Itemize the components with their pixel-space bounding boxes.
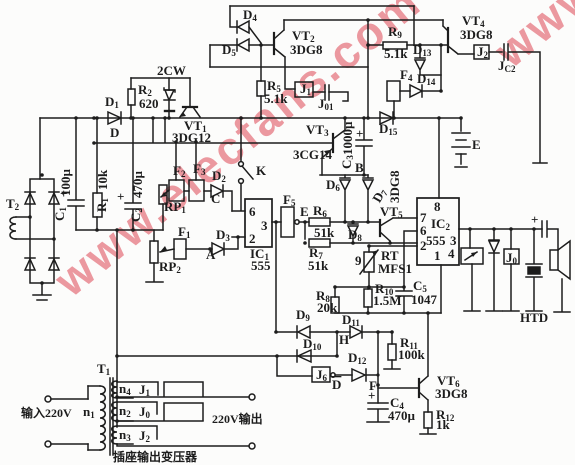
svg-text:2: 2	[420, 238, 427, 253]
svg-text:3CG14: 3CG14	[293, 147, 333, 162]
svg-text:3DG8: 3DG8	[387, 170, 402, 203]
svg-text:J1: J1	[300, 81, 312, 97]
svg-text:F3: F3	[193, 161, 206, 177]
svg-text:D11: D11	[342, 312, 360, 328]
svg-text:R1: R1	[94, 198, 110, 212]
svg-text:JC2: JC2	[498, 58, 516, 74]
svg-text:D6: D6	[326, 177, 340, 193]
svg-text:D1: D1	[105, 94, 119, 110]
svg-text:n3: n3	[119, 427, 131, 443]
svg-text:R9: R9	[388, 24, 402, 40]
svg-text:J2: J2	[139, 428, 151, 444]
svg-text:T1: T1	[97, 361, 111, 377]
svg-text:K: K	[256, 163, 267, 178]
svg-text:220V输出: 220V输出	[212, 411, 263, 426]
svg-text:MFS1: MFS1	[378, 261, 412, 276]
svg-text:100k: 100k	[398, 347, 426, 362]
svg-text:输入220V: 输入220V	[21, 405, 72, 420]
svg-text:J01: J01	[318, 96, 334, 112]
svg-text:+: +	[117, 189, 124, 204]
svg-text:D12: D12	[348, 350, 367, 366]
svg-text:D3: D3	[216, 227, 230, 243]
svg-text:D2: D2	[212, 168, 226, 184]
svg-text:n4: n4	[119, 381, 131, 397]
svg-text:J1: J1	[139, 382, 151, 398]
svg-text:D14: D14	[417, 71, 436, 87]
svg-text:1: 1	[434, 248, 441, 263]
svg-text:10k: 10k	[95, 169, 110, 190]
svg-text:VT5: VT5	[380, 204, 403, 220]
svg-text:E: E	[300, 204, 309, 219]
svg-text:T2: T2	[6, 196, 20, 212]
svg-text:+: +	[368, 388, 375, 403]
svg-text:D4: D4	[243, 7, 257, 23]
svg-text:470µ: 470µ	[130, 171, 145, 199]
svg-text:A: A	[206, 247, 216, 262]
svg-text:8: 8	[434, 199, 441, 214]
svg-text:3DG12: 3DG12	[172, 130, 211, 145]
svg-text:20k: 20k	[317, 300, 338, 315]
svg-text:51k: 51k	[314, 225, 335, 240]
svg-text:2: 2	[249, 231, 256, 246]
svg-text:+: +	[60, 186, 67, 201]
svg-text:1.5M: 1.5M	[373, 293, 402, 308]
svg-text:F1: F1	[178, 224, 191, 240]
svg-text:D8: D8	[348, 227, 362, 243]
svg-text:R6: R6	[313, 203, 327, 219]
svg-text:插座输出变压器: 插座输出变压器	[113, 449, 198, 464]
svg-text:9: 9	[355, 253, 362, 268]
svg-text:1k: 1k	[436, 417, 451, 432]
svg-text:C: C	[211, 191, 220, 206]
svg-text:C3: C3	[339, 155, 355, 169]
svg-text:+: +	[531, 212, 538, 227]
svg-text:C2: C2	[128, 208, 144, 222]
svg-text:RP2: RP2	[159, 259, 181, 275]
svg-text:HTD: HTD	[520, 310, 548, 325]
svg-text:2CW: 2CW	[157, 63, 186, 78]
svg-text:1047: 1047	[411, 292, 438, 307]
svg-text:B: B	[355, 160, 364, 175]
svg-text:D: D	[332, 377, 341, 392]
svg-text:IC2: IC2	[431, 216, 450, 232]
svg-text:620: 620	[139, 96, 159, 111]
svg-text:J0: J0	[139, 404, 151, 420]
svg-text:F2: F2	[173, 163, 186, 179]
svg-text:VT3: VT3	[306, 122, 329, 138]
svg-text:4: 4	[448, 246, 455, 261]
svg-text:+: +	[356, 126, 363, 141]
svg-text:555: 555	[251, 258, 271, 273]
svg-text:3DG8: 3DG8	[460, 27, 493, 42]
svg-text:1000µ: 1000µ	[340, 121, 355, 155]
svg-text:H: H	[339, 332, 349, 347]
svg-text:J0: J0	[506, 250, 518, 266]
svg-text:F5: F5	[283, 192, 296, 208]
svg-text:E: E	[472, 137, 481, 152]
svg-text:J6: J6	[316, 367, 328, 383]
svg-text:3DG8: 3DG8	[290, 42, 323, 57]
svg-text:J2: J2	[477, 44, 489, 60]
svg-text:D9: D9	[296, 307, 310, 323]
svg-text:470µ: 470µ	[388, 408, 416, 423]
svg-text:51k: 51k	[308, 258, 329, 273]
svg-text:6: 6	[249, 204, 256, 219]
svg-text:F4: F4	[400, 67, 413, 83]
svg-text:n2: n2	[119, 403, 131, 419]
svg-text:n1: n1	[83, 404, 95, 420]
svg-text:5.1k: 5.1k	[384, 46, 408, 61]
svg-text:D15: D15	[379, 121, 398, 137]
svg-text:D10: D10	[303, 336, 322, 352]
svg-text:3: 3	[261, 218, 268, 233]
svg-text:5.1k: 5.1k	[264, 91, 288, 106]
svg-text:555: 555	[426, 233, 446, 248]
svg-text:D: D	[110, 125, 119, 140]
svg-text:3DG8: 3DG8	[435, 386, 468, 401]
